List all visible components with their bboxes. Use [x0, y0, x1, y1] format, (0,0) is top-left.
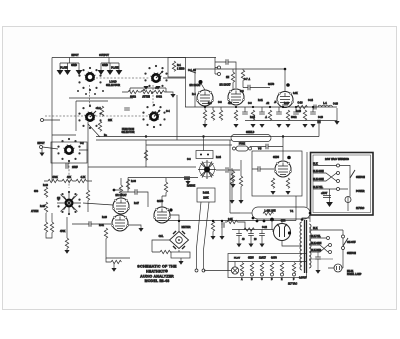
resistor R13 [86, 190, 89, 200]
wire C19 [309, 252, 333, 270]
box 240vac outer [311, 153, 374, 216]
node arrow 5 [107, 70, 114, 75]
node dot bus7 [312, 106, 314, 108]
wire pill left [240, 212, 252, 214]
terminal heater 5 [281, 273, 284, 276]
terminal heater 2 [251, 273, 254, 276]
node dot R23 [212, 220, 214, 222]
svg-text:SELECTOR: SELECTOR [106, 83, 120, 87]
switch S7 range box [196, 151, 213, 159]
node dot bus2 [235, 106, 237, 108]
tube V6 [153, 207, 170, 223]
diode D4 [182, 246, 185, 249]
svg-text:SCHEMATIC OF THE: SCHEMATIC OF THE [137, 265, 177, 269]
terminal 240 row2 [337, 172, 340, 175]
node arrow 2 [64, 70, 71, 75]
svg-text:CAL: CAL [159, 235, 164, 238]
svg-text:HEATHKIT®: HEATHKIT® [146, 270, 168, 274]
wire R40 [232, 170, 234, 184]
wire gang dashed S4-S3 [45, 115, 149, 117]
svg-text:C-7 .1: C-7 .1 [244, 79, 251, 81]
wire V6 top [161, 196, 163, 207]
switch S1 load selector contact ring [78, 67, 101, 91]
wire diag to bus [88, 124, 100, 137]
resistor R26 [211, 110, 214, 120]
resistor R12 [44, 202, 47, 212]
wire output bus2 [245, 120, 337, 122]
wire S2 pointer [156, 71, 163, 78]
terminal sec 1 [327, 237, 330, 240]
box 240vac inner [313, 155, 371, 213]
ground R33 [270, 191, 275, 195]
wire C9 [243, 87, 270, 89]
switch S5 hub [64, 145, 75, 154]
ground V4 [138, 228, 143, 232]
svg-text:R-30: R-30 [131, 181, 137, 183]
capacitor C11 [259, 112, 265, 114]
svg-text:1 MEG: 1 MEG [177, 68, 185, 71]
wire S2 arrowhead [161, 71, 163, 73]
wire power rail [342, 230, 344, 268]
wire V8 stem [281, 221, 283, 224]
resistor R5 [100, 106, 103, 116]
wire x195 rail [195, 69, 230, 107]
wire V4b right [128, 225, 141, 228]
svg-text:6AU6: 6AU6 [157, 200, 164, 203]
svg-text:INPUT: INPUT [37, 142, 45, 145]
wire gang dashed S2-S3 vert [152, 85, 154, 108]
wire x177 drop [176, 95, 178, 140]
wire V8 left tap [272, 220, 301, 247]
resistor R14 [44, 222, 47, 232]
wire gang dashed S1-S4 vert [89, 85, 91, 108]
svg-text:SELECTOR: SELECTOR [122, 131, 135, 134]
wire left tails [46, 213, 52, 238]
wire 240 right rail [340, 166, 351, 197]
svg-text:6EB5: 6EB5 [248, 258, 254, 260]
terminal sec 2 [329, 244, 332, 247]
wire rail x230 [230, 140, 240, 213]
svg-text:C-28: C-28 [333, 104, 339, 106]
wire sec 2 cross [309, 238, 328, 252]
node dot box b [207, 154, 209, 156]
svg-text:1M: 1M [57, 198, 60, 200]
resistor R17 [144, 150, 147, 160]
capacitor 240 hot [323, 196, 331, 198]
connector plug [184, 176, 190, 180]
svg-text:FUSE: FUSE [239, 144, 246, 146]
wire meter top [178, 221, 180, 232]
terminal fuse a [233, 147, 236, 150]
capacitor C20 [266, 144, 268, 150]
ground R21 [111, 268, 116, 272]
diode D1 [173, 231, 176, 234]
ground C17 [248, 244, 253, 248]
svg-text:47K: 47K [228, 102, 233, 105]
wire R22 [152, 243, 171, 252]
node dot T1 top [301, 218, 304, 221]
switch S7 contacts [200, 162, 215, 177]
capacitor C13 [293, 112, 299, 114]
svg-text:L-201 10H: L-201 10H [265, 211, 276, 213]
node dot V7 [287, 156, 291, 160]
wire S7 left [128, 177, 198, 179]
svg-text:+HOT: +HOT [321, 193, 328, 195]
terminal heater 6 [293, 273, 296, 276]
capacitor C12 [276, 112, 282, 114]
svg-text:GRID: GRID [71, 65, 77, 67]
wire rect left [272, 230, 274, 233]
wire neon [328, 267, 343, 269]
tube V1 [196, 90, 213, 106]
ground C7 [219, 236, 224, 240]
wire terminal to rail [44, 119, 61, 121]
tube V4b [111, 215, 128, 231]
wire fuse240 stem [347, 197, 349, 212]
node dot S2 extra2 [151, 92, 153, 94]
wire bus C [146, 144, 232, 146]
svg-text:METER: METER [181, 225, 190, 229]
svg-text:PANEL LAMP: PANEL LAMP [347, 273, 362, 276]
arrow 240 hot [326, 202, 333, 207]
terminal 240 row4 [337, 188, 340, 191]
resistor R33 [271, 178, 274, 188]
node dot busA2 [202, 135, 204, 137]
capacitor C6 [89, 221, 91, 227]
svg-text:117 VAC: 117 VAC [288, 283, 297, 286]
wire R24 [232, 69, 234, 89]
capacitor C18b [259, 234, 265, 236]
svg-text:R-11: R-11 [258, 100, 264, 102]
svg-text:R-16: R-16 [43, 185, 49, 187]
box around S5 [51, 142, 87, 163]
wire top bus y69 [230, 68, 285, 70]
wire R21 [106, 258, 114, 268]
wire chain2 [44, 180, 92, 182]
wire main bus y107 [185, 106, 337, 108]
node dot V1 [199, 80, 203, 84]
svg-text:LOAD: LOAD [109, 80, 116, 84]
terminal power a [342, 235, 345, 238]
node dot S1 extra3 [94, 93, 96, 95]
wire long bus B [96, 139, 232, 141]
capacitor C7 [222, 222, 224, 228]
wire S3 pointer [154, 110, 160, 117]
meter movement M1 [176, 237, 183, 244]
svg-text:R-29: R-29 [102, 217, 108, 219]
resistor R39 [227, 220, 237, 223]
resistor R30 [268, 110, 271, 120]
resistor R28 [234, 110, 237, 120]
svg-text:22K: 22K [108, 120, 113, 122]
wire pilot drop [227, 262, 229, 271]
relay box below S7 [197, 188, 215, 202]
resistor R34 [286, 178, 289, 188]
diode D2 [182, 231, 185, 234]
resistor R42 [126, 179, 129, 189]
rectifier plates [277, 224, 287, 237]
wire S6 dashed gang [68, 162, 70, 188]
svg-text:SHIELD: SHIELD [246, 132, 255, 134]
wire V4 left [83, 203, 113, 205]
resistor R31 [286, 110, 289, 120]
node dot C7 [221, 220, 223, 222]
tube V3 [276, 92, 293, 108]
ground C19 [315, 270, 320, 274]
capacitor C9 [248, 85, 250, 91]
wire S4 pointer [90, 111, 96, 117]
wire box right rail [295, 196, 297, 221]
wire R25 [204, 106, 206, 124]
node dot busA1 [145, 135, 147, 137]
terminal 240 row3 [337, 180, 340, 183]
switch S2 hub [151, 73, 162, 82]
capacitor C21 [226, 167, 228, 173]
wire y135 [52, 134, 76, 136]
svg-text:C-18: C-18 [297, 103, 303, 105]
wire meter left [152, 240, 169, 243]
amplifier box [252, 151, 302, 196]
node dot V3 [286, 83, 290, 87]
node dot busA3 [282, 135, 284, 137]
wire heater bus mid [228, 261, 307, 263]
tube V8 rectifier [274, 224, 291, 241]
wire chain ends [122, 91, 170, 93]
node dot S2 extra1 [143, 89, 145, 91]
ground S6 [64, 250, 69, 254]
terminal input jack [40, 146, 43, 149]
node dot V6 [169, 208, 172, 211]
svg-text:SIG: SIG [34, 190, 38, 193]
capacitor C10 [242, 112, 248, 114]
resistor R24b [241, 70, 244, 80]
capacitor C14 [310, 112, 316, 114]
svg-text:R-14: R-14 [250, 116, 256, 119]
switch S7 blob [198, 160, 216, 179]
resistor R41 on bus [297, 105, 307, 108]
heater coil 5 [280, 263, 283, 273]
svg-text:BLK-GRN: BLK-GRN [311, 243, 322, 245]
resistor R11 [44, 187, 47, 197]
resistor R5b [98, 121, 101, 131]
resistor R27 [219, 110, 222, 120]
svg-text:12AX7: 12AX7 [259, 257, 267, 260]
diode D3 [173, 246, 176, 249]
terminal top left [41, 119, 44, 122]
svg-text:470K: 470K [60, 230, 66, 233]
node arrow 6 [116, 70, 123, 75]
wire V3 stem [284, 69, 286, 91]
svg-text:2.2K: 2.2K [228, 219, 233, 221]
svg-text:R-12: R-12 [284, 103, 290, 105]
wire V4 top [114, 178, 121, 198]
terminal lamp 2 [202, 269, 205, 272]
heater coil 2 [250, 263, 253, 273]
switch S4 ring [78, 105, 101, 129]
wire jack [201, 84, 205, 91]
wire gang dashed S1-S2 [96, 77, 150, 79]
resistor chain 3 [154, 90, 164, 93]
wire cap bus [232, 230, 273, 244]
wire S7 right [216, 169, 240, 171]
wire R39 [225, 222, 245, 230]
svg-text:AUDIO ANALYZER: AUDIO ANALYZER [140, 275, 174, 279]
wire 240 arrow stem [329, 189, 331, 202]
ground R25 [202, 124, 207, 128]
wire out return [318, 123, 320, 127]
resistor R32 [303, 110, 306, 120]
node dot bus6 [295, 106, 297, 108]
node dot bus1 [204, 106, 206, 108]
meter needle dot [178, 239, 180, 241]
resistor R24 [231, 72, 234, 82]
node dot S1 extra1 [77, 90, 79, 92]
node dot bus5 [282, 106, 284, 108]
wire chain tail [170, 92, 173, 94]
ground R29 [250, 124, 255, 128]
capacitor C22 series [314, 105, 316, 110]
capacitor C8 [226, 59, 228, 65]
node dot pill right [309, 212, 312, 215]
svg-text:ATTEN: ATTEN [31, 210, 39, 213]
node dot V8 [270, 218, 274, 222]
svg-text:1/2 12AX7: 1/2 12AX7 [219, 84, 231, 87]
ground R23 [210, 236, 215, 240]
node dot meter bus b [263, 220, 266, 223]
transformer T1 secondary winding [309, 224, 311, 268]
node dot V4 [113, 189, 116, 192]
switch S3 hub [149, 111, 160, 120]
wire L1 tail [336, 108, 338, 121]
svg-text:1M: 1M [226, 77, 229, 79]
wire left rail [51, 58, 53, 183]
resistor R19 [164, 182, 167, 192]
capacitor C17 [248, 234, 254, 236]
svg-text:C-16: C-16 [318, 117, 324, 119]
heater coil 3 [260, 263, 263, 273]
ground L1 [334, 121, 339, 125]
wire long bus A [96, 127, 319, 137]
choke pill box [252, 207, 310, 219]
wire C6 [72, 223, 111, 225]
wire lamp vertical 2 [204, 202, 210, 269]
ground R36 [238, 200, 243, 204]
ground R32 [302, 124, 307, 128]
terminal output jack upper [218, 66, 221, 69]
node dot meter top [178, 220, 180, 222]
wire x146 drop [145, 140, 147, 167]
resistor R40 [231, 171, 234, 181]
switch S4 hub [85, 112, 96, 121]
wire S2 to box [163, 77, 186, 107]
wire S6 down [66, 217, 68, 250]
resistor R23 [211, 221, 214, 231]
wire 240 row1 [313, 165, 337, 167]
resistor R37 [263, 212, 273, 215]
resistor R20 [104, 228, 107, 238]
svg-text:117VAC: 117VAC [356, 207, 365, 210]
resistor R25 [203, 110, 206, 120]
heater coil 6 [292, 263, 295, 273]
wire C5 [121, 192, 148, 207]
svg-text:ON-OFF: ON-OFF [347, 242, 356, 244]
inductor L1 [318, 105, 332, 107]
svg-text:NE-51: NE-51 [347, 271, 354, 273]
svg-text:PILOT: PILOT [234, 258, 241, 260]
switch S6 ring [57, 191, 80, 215]
svg-text:BLK-YEL: BLK-YEL [311, 236, 321, 238]
node dot meter bus a [256, 220, 259, 223]
svg-text:C-22: C-22 [262, 227, 268, 229]
resistor chain R atten [128, 90, 138, 93]
resistor chain 2 [141, 90, 151, 93]
shielded pill on bus [231, 135, 271, 142]
terminal 240 row1 [337, 164, 340, 167]
resistor R15 [50, 222, 53, 232]
switch power a [343, 238, 348, 246]
wire y107 link [90, 104, 154, 106]
svg-text:6.3VCT: 6.3VCT [299, 278, 307, 280]
svg-text:6EB5: 6EB5 [273, 156, 280, 159]
svg-text:6.8K: 6.8K [293, 93, 298, 95]
ground C18b [259, 244, 264, 248]
neon electrodes [337, 266, 340, 270]
switch S6 hub [66, 200, 73, 207]
tube V4a [112, 198, 129, 214]
resistor R38 [244, 228, 254, 231]
transformer T1 core [305, 220, 307, 273]
wire pilot [204, 262, 235, 271]
node dot y69 [284, 68, 287, 71]
svg-text:R-101: R-101 [203, 193, 210, 195]
switch S1 hub [85, 72, 96, 81]
svg-text:600Ω: 600Ω [156, 97, 162, 99]
wire bus y167 [88, 166, 196, 168]
svg-text:240 VAC WIRING: 240 VAC WIRING [325, 157, 350, 161]
capacitor C3 [124, 108, 130, 110]
svg-text:220K: 220K [203, 198, 209, 200]
wire bus y221 [155, 220, 296, 222]
wire sec BLK [309, 229, 343, 231]
switch S6 spokes [57, 191, 81, 215]
svg-text:6AU6: 6AU6 [268, 83, 275, 86]
ground S7 left [185, 181, 190, 185]
terminal fuse b [249, 147, 252, 150]
resistor chain2 b [62, 179, 72, 182]
svg-text:C-14: C-14 [308, 99, 314, 102]
node dot bus4 [269, 106, 271, 108]
wire gnd stem S7 [187, 178, 189, 181]
terminal power b [342, 247, 345, 250]
wire input jack [42, 147, 58, 153]
terminal sec 3 [329, 251, 332, 254]
wire 240 box drop [309, 215, 311, 223]
resistor R22 [160, 250, 170, 253]
switch S7 hub [204, 167, 210, 173]
pilot lamp [231, 267, 238, 274]
ground C12 [276, 124, 281, 128]
ground input jack [39, 153, 44, 157]
wire row2 bus [69, 97, 133, 99]
svg-text:PLATE: PLATE [60, 67, 68, 70]
wire S5 to rail [79, 122, 88, 212]
svg-text:R-31: R-31 [99, 225, 105, 227]
fuse F1 [236, 146, 248, 151]
wire comb stems [213, 107, 313, 112]
svg-text:4.7K: 4.7K [81, 176, 86, 179]
node arrow 4 [98, 70, 105, 75]
neon lamp NE2 [334, 264, 342, 272]
